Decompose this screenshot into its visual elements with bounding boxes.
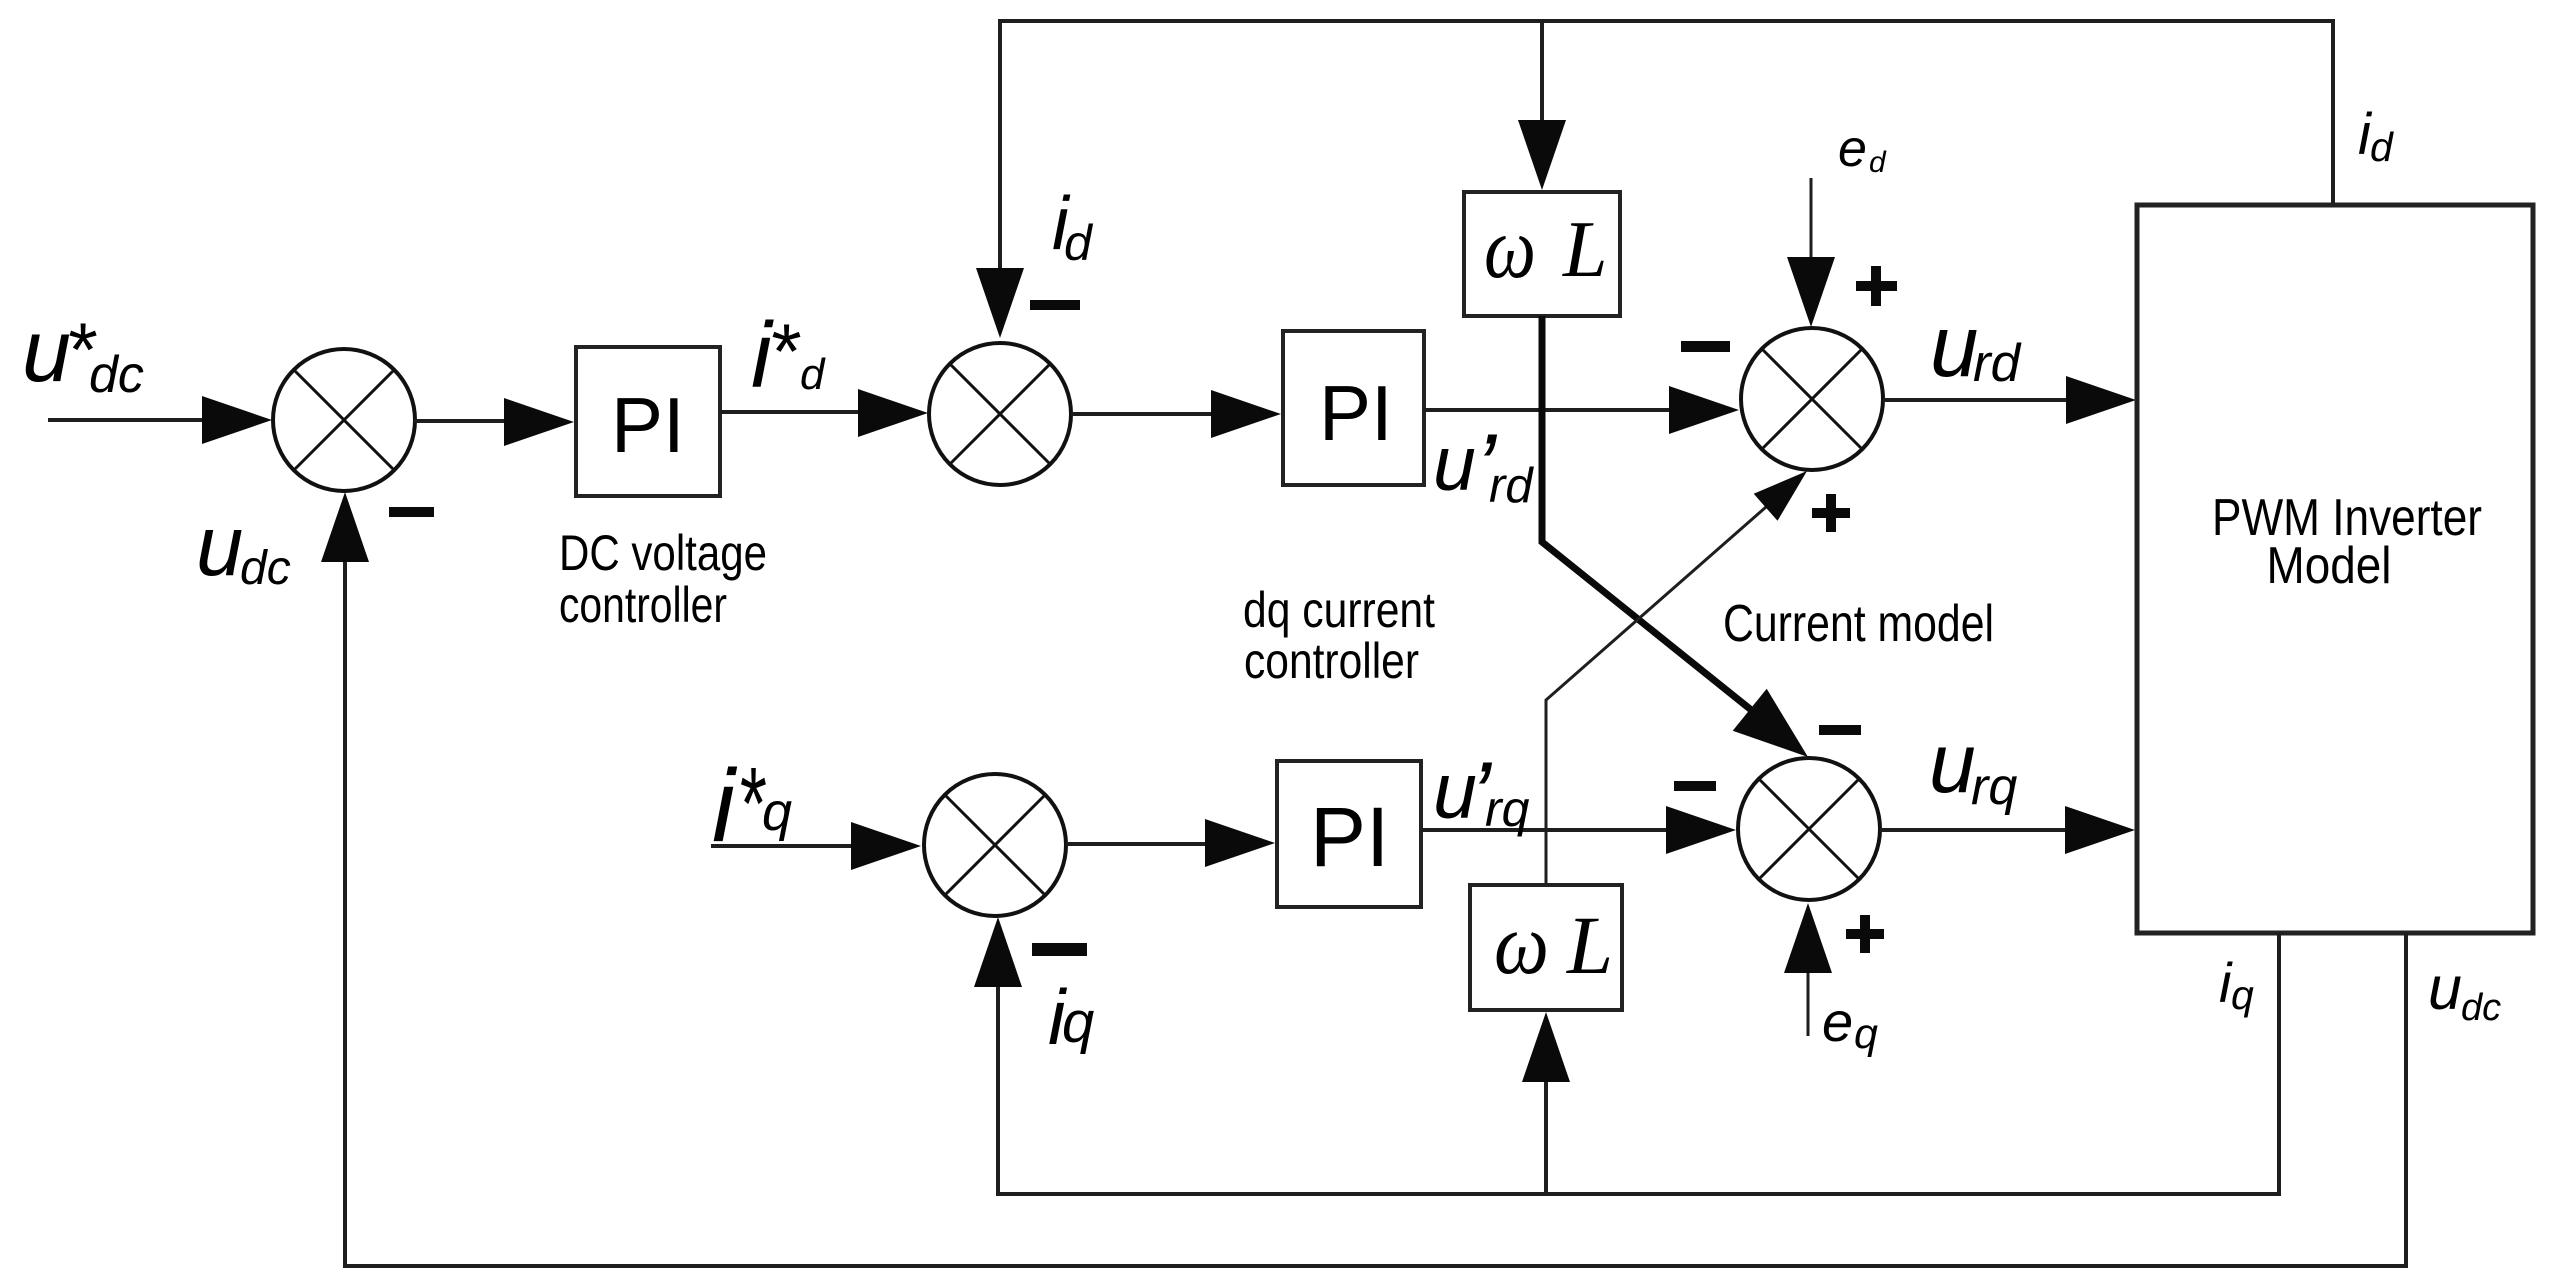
wire top-right vertical from PWM top xyxy=(2331,19,2335,205)
svg-text:Model: Model xyxy=(2267,537,2392,595)
node label i_q below J4 xyxy=(1048,973,1094,1061)
svg-text:u: u xyxy=(1929,716,1976,810)
plus sign at J3 bottom xyxy=(1812,494,1850,532)
svg-text:q: q xyxy=(2231,972,2254,1018)
wire PI2 to J3 xyxy=(1424,386,1739,434)
minus sign at J5 left xyxy=(1674,781,1716,791)
wire u_dc up into J1 xyxy=(321,492,369,1266)
svg-text:u: u xyxy=(196,499,243,594)
svg-text:DC voltage: DC voltage xyxy=(559,525,767,581)
node label u'rq xyxy=(1433,742,1530,847)
node label u'rd xyxy=(1433,414,1534,519)
wire i_q feedback from PWM bottom xyxy=(996,933,2281,1194)
svg-text:u: u xyxy=(22,301,71,400)
svg-text:u: u xyxy=(2428,954,2462,1022)
wire e_q up into J5 xyxy=(1784,903,1832,1036)
node label u_dc left xyxy=(196,499,291,595)
node label u*dc xyxy=(22,301,144,404)
minus sign at J1 xyxy=(389,507,434,517)
block omega-L1 xyxy=(1464,192,1620,316)
svg-text:d: d xyxy=(2370,124,2394,170)
wire into omega-L2 from below xyxy=(1522,1012,1570,1194)
svg-text:dc: dc xyxy=(89,346,144,404)
svg-text:ω: ω xyxy=(1494,895,1549,992)
wire J4 to PI3 xyxy=(1066,819,1275,867)
wire i_q up into J4 xyxy=(974,917,1022,1194)
svg-text:ω: ω xyxy=(1484,200,1536,297)
svg-text:q: q xyxy=(1854,1010,1878,1058)
svg-text:u: u xyxy=(1930,298,1978,395)
minus sign at J3 left xyxy=(1681,341,1730,352)
svg-text:rd: rd xyxy=(1973,334,2022,393)
summing junction J5 xyxy=(1738,758,1880,900)
wire J2 to PI2 xyxy=(1071,390,1281,438)
node label u_dc right xyxy=(2428,954,2501,1029)
svg-text:dc: dc xyxy=(2461,987,2501,1029)
block PI2 d current controller xyxy=(1283,331,1424,485)
label Current model xyxy=(1723,595,1994,653)
node label i*q xyxy=(712,746,792,863)
node label e_q xyxy=(1822,990,1878,1058)
wire top i_d feedback horizontal xyxy=(998,19,2333,23)
wire branch down to omega-L1 xyxy=(1518,21,1566,190)
node label e_d xyxy=(1838,120,1887,179)
summing junction J3 xyxy=(1741,328,1883,470)
wire e_d down into J3 xyxy=(1787,178,1835,327)
svg-text:PI: PI xyxy=(1310,790,1389,884)
svg-text:*: * xyxy=(768,307,801,395)
minus sign at J5 diagonal input xyxy=(1819,725,1861,735)
wire u_dc feedback from PWM bottom xyxy=(343,933,2408,1266)
svg-text:L: L xyxy=(1566,899,1613,991)
wire top-left vertical down to J2 xyxy=(976,19,1024,338)
svg-text:Current model: Current model xyxy=(1723,595,1994,653)
svg-text:d: d xyxy=(1869,146,1887,179)
label dq current controller xyxy=(1243,582,1435,689)
wire PI3 to J5 xyxy=(1421,806,1736,854)
svg-text:rq: rq xyxy=(1971,758,2017,816)
node label i*d xyxy=(751,303,826,407)
svg-text:dq current: dq current xyxy=(1243,582,1435,638)
wire J1 to PI1 xyxy=(414,398,574,446)
minus sign at J4 xyxy=(1032,943,1087,956)
node label u_rd xyxy=(1930,298,2022,395)
svg-text:PI: PI xyxy=(611,381,685,469)
svg-text:e: e xyxy=(1822,990,1853,1053)
summing junction J1 xyxy=(273,349,415,491)
svg-text:PI: PI xyxy=(1319,369,1393,457)
svg-text:rd: rd xyxy=(1489,459,1534,513)
node label i_q right xyxy=(2219,951,2254,1018)
wire PI1 to J2 xyxy=(720,389,928,437)
svg-text:i: i xyxy=(712,748,738,863)
minus sign at J2 xyxy=(1030,300,1080,310)
block PI3 q current controller xyxy=(1277,761,1421,907)
plus sign at J5 bottom xyxy=(1846,915,1884,953)
block PWM Inverter Model xyxy=(2137,205,2533,933)
thin cross-coupling wire from omega-L2 to J3 xyxy=(1546,471,1807,885)
wire J5 to PWM xyxy=(1880,806,2135,854)
block PI1 DC voltage controller xyxy=(576,347,720,496)
svg-text:dc: dc xyxy=(240,542,291,595)
svg-text:controller: controller xyxy=(1244,633,1419,689)
svg-text:L: L xyxy=(1562,206,1608,294)
thick cross-coupling wire from omega-L1 to J5 xyxy=(1542,316,1808,757)
block omega-L2 xyxy=(1470,885,1622,1010)
node label u_rq xyxy=(1929,716,2017,816)
svg-text:d: d xyxy=(800,350,826,399)
svg-text:q: q xyxy=(1062,990,1094,1055)
svg-text:rq: rq xyxy=(1485,781,1530,837)
svg-text:d: d xyxy=(1064,215,1094,271)
node label i_d right xyxy=(2358,102,2394,170)
svg-text:e: e xyxy=(1838,120,1867,178)
svg-text:q: q xyxy=(762,782,792,842)
wire u*dc input xyxy=(48,396,272,444)
svg-text:controller: controller xyxy=(559,577,727,633)
node label i_d above J2 xyxy=(1052,181,1094,271)
wire i*q input xyxy=(711,822,921,870)
svg-text:u: u xyxy=(1433,421,1476,507)
summing junction J4 xyxy=(924,774,1066,916)
summing junction J2 xyxy=(929,343,1071,485)
label DC voltage controller xyxy=(559,525,767,633)
plus sign at J3 top xyxy=(1856,266,1897,306)
wire J3 to PWM xyxy=(1883,376,2136,424)
